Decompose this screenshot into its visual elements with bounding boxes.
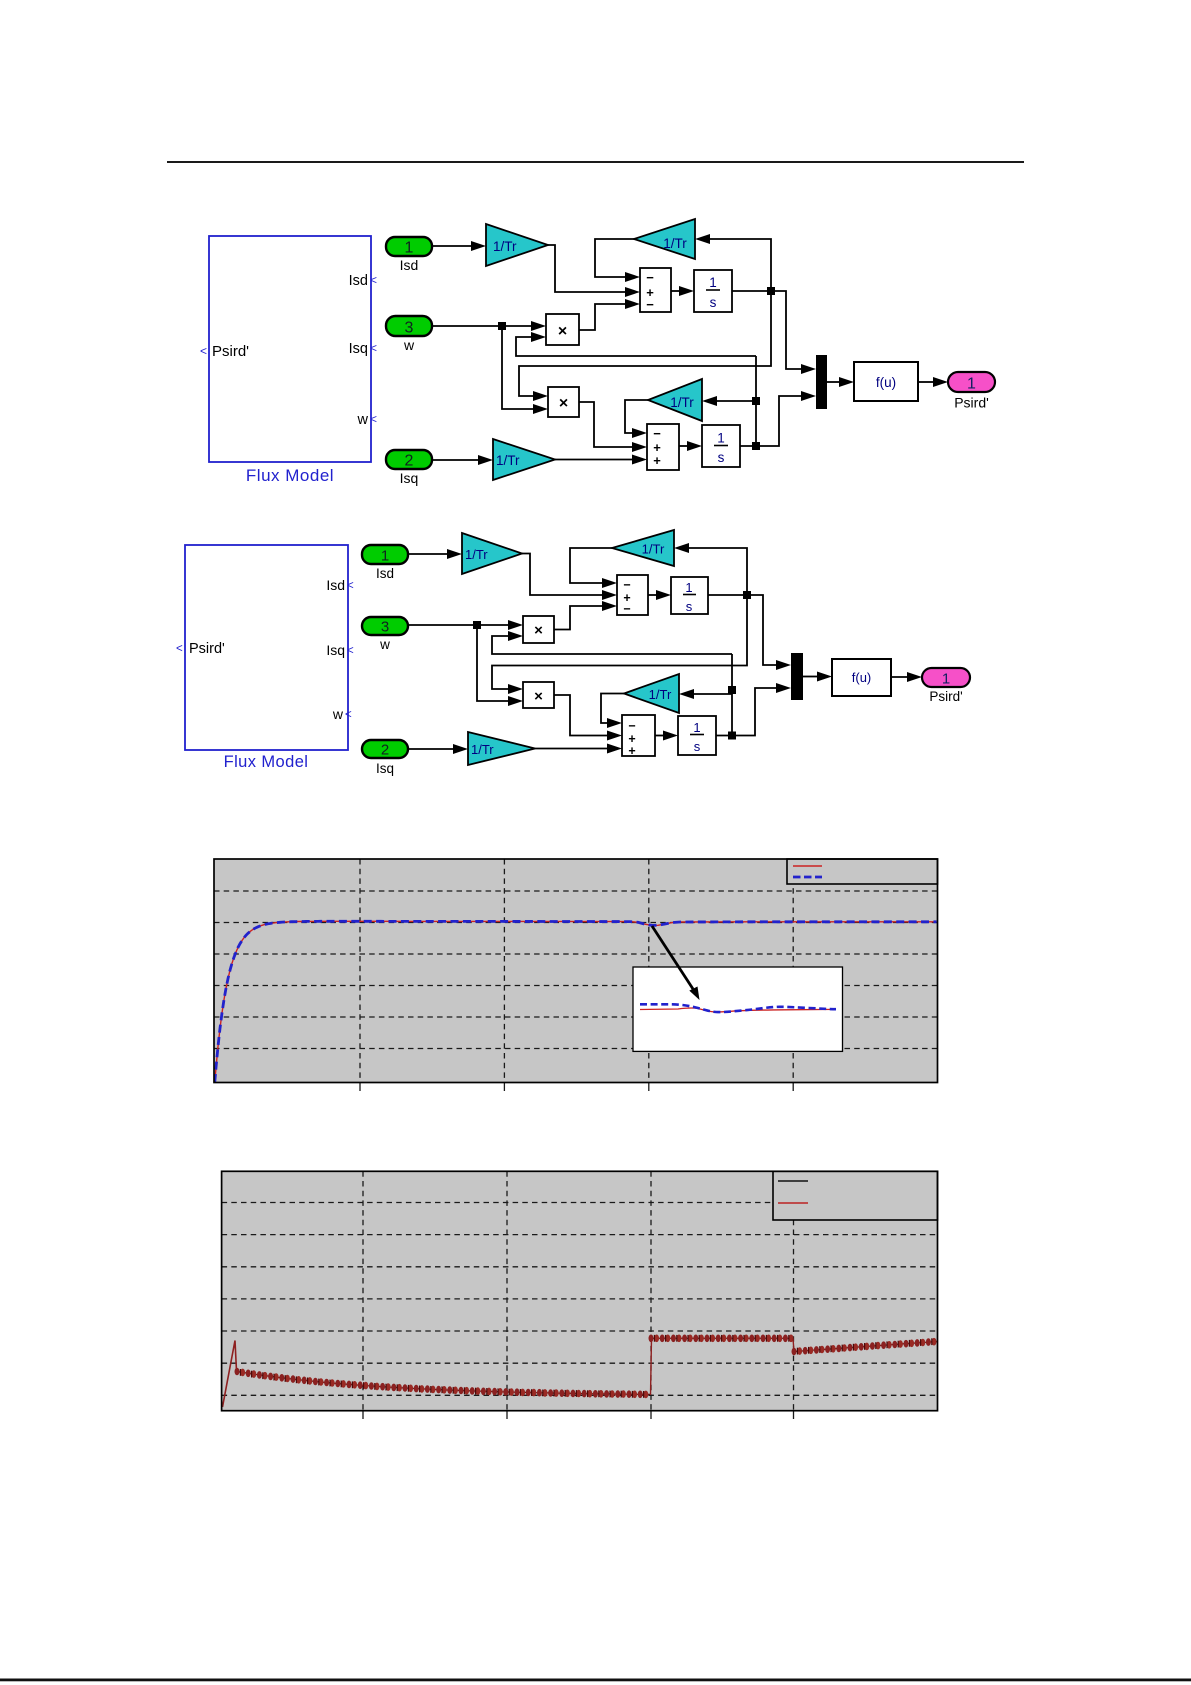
mux bar [816,355,827,409]
svg-text:1/Tr: 1/Tr [471,742,494,757]
wire psid feedback down to product2 [519,291,771,401]
plot2 x-axis ticks [363,1411,794,1419]
wire psiq feedback up with branch to gain4 (d2) [679,654,736,736]
svg-text:Isq: Isq [376,761,394,776]
plot2 step connector 1 [651,1338,652,1395]
gain 1/Tr Isd (d2) [462,533,522,574]
inport 2 Isq [386,450,432,486]
wire psid feedback down to product2 (d2) [492,595,747,694]
svg-text:×: × [534,688,543,705]
gain 1/Tr feedback lower (left-pointing) [648,379,702,421]
plot1 annotation arrow [652,926,700,1000]
svg-text:s: s [686,599,693,614]
svg-text:−: − [646,270,654,285]
svg-text:1: 1 [717,431,725,446]
wire product1 to sum1 bottom [579,299,640,330]
plot1 grid vertical [360,859,793,1083]
svg-text:<: < [345,709,352,721]
svg-text:f(u): f(u) [876,375,896,390]
integrator 1/s upper [694,270,732,312]
wire gain3 to sum1 top [595,239,640,282]
svg-text:s: s [694,739,701,754]
wire gain4 to sum2 top (d2) [601,694,624,729]
f(u) block (d2) [832,659,891,696]
inport 3 w (d2) [362,617,408,652]
wire sum2 to integrator2 [679,441,702,451]
plot1 x-axis ticks [360,1083,793,1092]
top horizontal rule [167,161,1024,163]
wire w down to product2 [502,326,548,414]
svg-text:+: + [653,453,661,468]
wire inport3 to product1 (d2) [408,620,523,630]
sum block lower (d2) [622,715,655,758]
svg-text:1: 1 [967,376,976,393]
wire sum2 to integrator2 (d2) [655,731,678,741]
inport 1 Isd (d2) [362,545,408,581]
inport 3 w [386,316,432,353]
product block upper (d2) [523,616,554,643]
svg-text:1: 1 [942,671,950,688]
bottom horizontal rule [0,1679,1191,1682]
wire gain1 to sum1 middle (d2) [522,554,617,601]
product block lower (d2) [523,682,554,708]
svg-text:<: < [370,412,377,426]
svg-text:w: w [357,412,369,428]
wire gain3 to sum1 top (d2) [570,548,617,588]
svg-text:−: − [628,719,635,733]
wire gain2 to sum2 bottom [555,455,647,465]
plot2 band3 centerline [794,1342,937,1352]
plot1 inset box [633,967,843,1051]
svg-text:1/Tr: 1/Tr [493,239,517,254]
svg-text:1: 1 [381,548,389,565]
integrator 1/s lower [702,425,740,467]
subsystem block Flux Model 2 [176,545,354,771]
sum block upper (d2) [617,575,648,616]
svg-text:×: × [559,395,568,412]
svg-text:Psird': Psird' [954,395,989,411]
wire inport1 to gain [432,241,486,251]
svg-text:1/Tr: 1/Tr [496,453,520,468]
gain 1/Tr feedback lower (d2) [624,674,679,713]
wire mux to f(u) [827,377,854,387]
svg-text:2: 2 [381,742,389,759]
wire integrator1 out to mux input1 (d2) [708,591,791,670]
wire mux to f(u) (d2) [803,672,832,682]
svg-text:<: < [370,273,377,287]
svg-text:s: s [718,450,725,465]
svg-text:Flux Model: Flux Model [246,466,334,485]
svg-text:Psird': Psird' [212,343,249,360]
svg-text:Psird': Psird' [929,689,962,704]
plot2 border [222,1171,938,1410]
subsystem block Flux Model [200,236,377,485]
plot1 inset red curve [640,1008,836,1012]
wire psiq to product1 lower [516,332,756,356]
svg-text:−: − [623,602,630,616]
svg-text:Flux Model: Flux Model [224,753,309,771]
product block upper [546,314,579,345]
wire gain1 to sum1 middle [548,245,640,297]
svg-text:Isd: Isd [326,577,345,593]
svg-text:w: w [379,637,390,652]
svg-text:Isq: Isq [400,470,419,486]
wire f(u) to outport (d2) [891,672,922,682]
plot2 band1 beads [235,1368,649,1399]
integrator 1/s upper (d2) [671,577,708,614]
svg-text:−: − [653,426,661,441]
svg-text:1: 1 [693,720,700,735]
wire psiq feedback up with branch to gain4 [702,356,760,446]
svg-text:×: × [558,323,567,340]
plot2 band2 centerline [651,1337,793,1339]
outport 1 Psird' (d2) [922,668,970,704]
svg-text:3: 3 [381,619,389,636]
wire integrator2 out to mux input2 (d2) [716,683,791,740]
product block lower [548,387,579,417]
plot1 background [214,859,938,1083]
wire inport2 to gain2 (d2) [408,744,468,754]
sum block lower (- + +) [647,424,679,470]
wire integrator1 out to mux input1 [732,287,816,374]
inport 2 Isq (d2) [362,740,408,776]
wire product2 to sum2 middle (d2) [554,695,622,741]
svg-text:1: 1 [709,275,717,290]
svg-text:1/Tr: 1/Tr [663,236,687,251]
svg-text:1: 1 [685,580,692,595]
svg-text:Isq: Isq [349,341,368,357]
mux bar (d2) [791,653,803,700]
svg-text:+: + [628,744,635,758]
plot2 legend [773,1171,938,1220]
plot1 border [214,859,938,1083]
svg-text:×: × [534,622,543,639]
plot1 legend [787,859,938,884]
gain 1/Tr (Isd path) [486,224,548,266]
sum block upper (- + -) [640,268,671,312]
svg-text:Isq: Isq [326,642,345,658]
svg-text:<: < [370,341,377,355]
wire product1 to sum1 bottom (d2) [554,601,617,630]
wire w down to product2 (d2) [477,625,523,706]
svg-text:−: − [646,297,654,312]
integrator 1/s lower (d2) [678,716,716,755]
plot1 grid horizontal [214,891,938,1049]
wire sum1 to integrator1 (d2) [648,590,671,600]
wire f(u) to outport [918,377,948,387]
gain 1/Tr feedback top (left-pointing) [634,219,695,259]
svg-text:Isd: Isd [400,257,419,273]
plot2 step connector 2 [793,1339,794,1352]
f(u) block [854,362,918,401]
outport 1 Psird' [948,372,995,411]
svg-text:<: < [347,645,354,657]
wire psid feedback up to gain3 [695,234,771,291]
wire gain4 to sum2 top [625,400,648,438]
plot1 inset blue dashed curve [640,1004,836,1012]
svg-text:Isd: Isd [349,273,368,289]
wire gain2 to sum2 bottom (d2) [535,744,622,754]
svg-text:w: w [403,337,415,353]
wire inport1 to gain1 (d2) [408,549,462,559]
plot2 band1 centerline [237,1372,650,1395]
svg-text:1/Tr: 1/Tr [465,547,488,562]
svg-text:<: < [176,643,183,655]
plot2 band2 beads [649,1335,794,1343]
plot2 band3 beads [792,1338,937,1355]
svg-text:<: < [347,580,354,592]
plot1 blue dashed curve [215,921,937,1082]
svg-text:1/Tr: 1/Tr [649,687,672,702]
svg-text:s: s [710,295,717,310]
wire product2 to sum2 middle [579,402,647,452]
svg-text:Psird': Psird' [189,641,225,657]
svg-text:w: w [332,706,344,722]
plot2 initial spike [223,1341,237,1408]
svg-text:1/Tr: 1/Tr [642,542,665,557]
wire integrator2 out to mux input2 [740,391,816,450]
wire psiq to product1 lower (d2) [492,631,732,654]
plot1 red curve [215,921,937,1082]
svg-text:1/Tr: 1/Tr [670,395,694,410]
svg-text:f(u): f(u) [852,670,872,685]
svg-text:2: 2 [405,453,414,470]
wire inport2 to gain2 [432,455,493,465]
svg-text:1: 1 [405,240,414,257]
plot2 background [222,1171,938,1410]
svg-text:<: < [200,344,207,358]
gain 1/Tr (Isq path) [493,439,555,480]
svg-text:Isd: Isd [376,566,394,581]
svg-text:−: − [623,578,630,592]
wire inport3 to product1 [432,321,546,331]
plot2 grid horizontal [222,1203,938,1396]
gain 1/Tr feedback top (d2) [612,530,674,566]
plot2 grid vertical [363,1171,794,1410]
wire psid feedback up to gain3 (d2) [674,543,747,595]
gain 1/Tr Isq (d2) [468,732,535,765]
inport 1 Isd [386,237,432,273]
wire sum1 to integrator1 [671,286,694,296]
svg-text:3: 3 [405,320,414,337]
